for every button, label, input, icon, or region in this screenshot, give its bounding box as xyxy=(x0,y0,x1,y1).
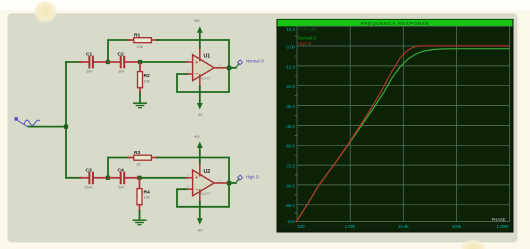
svg-text:10nF: 10nF xyxy=(84,185,93,189)
svg-text:C3: C3 xyxy=(86,167,93,173)
wire pin2 stub xyxy=(186,73,193,75)
svg-text:+: + xyxy=(195,175,198,181)
svg-text:C1: C1 xyxy=(86,52,93,58)
power +8V (U2) xyxy=(193,135,202,176)
op-amp U2 xyxy=(188,169,222,196)
svg-text:C4: C4 xyxy=(118,167,125,173)
wire trunk to C3 xyxy=(66,177,81,179)
curve Normal O (green) xyxy=(296,49,509,222)
capacitor C1 xyxy=(80,52,107,74)
ground (R4) xyxy=(133,220,145,225)
svg-text:0.00: 0.00 xyxy=(286,44,295,49)
graph window frame xyxy=(277,19,513,232)
svg-text:-72.0: -72.0 xyxy=(285,164,296,169)
svg-text:-24.0: -24.0 xyxy=(285,84,296,89)
svg-text:-8V: -8V xyxy=(197,113,203,117)
svg-text:1.00M: 1.00M xyxy=(497,224,509,229)
decorative blob top-left xyxy=(34,0,58,23)
resistor R1 xyxy=(129,32,158,48)
svg-text:1nF: 1nF xyxy=(118,185,125,189)
svg-text:12.0: 12.0 xyxy=(286,27,295,32)
x axis labels xyxy=(297,224,509,229)
svg-text:-8V: -8V xyxy=(197,229,203,233)
resistor R4 xyxy=(137,179,150,220)
svg-text:100: 100 xyxy=(297,224,305,229)
wire R1 to output column xyxy=(157,40,229,68)
y axis labels xyxy=(285,27,296,224)
capacitor C4 xyxy=(109,167,139,189)
svg-text:1.00k: 1.00k xyxy=(345,224,356,229)
svg-text:1nF: 1nF xyxy=(86,70,93,74)
svg-text:1k: 1k xyxy=(137,162,141,166)
ground (R2) xyxy=(134,103,146,108)
wire feedback loop U2 xyxy=(177,183,229,207)
svg-text:−: − xyxy=(196,187,199,193)
svg-text:PHASE: PHASE xyxy=(492,217,506,222)
svg-text:C2: C2 xyxy=(118,52,125,58)
resistor R3 xyxy=(129,150,158,166)
svg-text:U2: U2 xyxy=(204,169,211,175)
graph title bar xyxy=(278,20,513,27)
svg-text:R2: R2 xyxy=(144,73,151,79)
node B (C2-R2 junction) xyxy=(138,60,142,64)
svg-text:-96.0: -96.0 xyxy=(285,203,296,208)
node A (C1-C2 junction) xyxy=(106,60,110,64)
svg-text:High O: High O xyxy=(298,41,312,46)
decorative blob bottom xyxy=(460,239,486,249)
svg-text:10k: 10k xyxy=(144,79,150,83)
svg-text:+8V: +8V xyxy=(193,135,200,139)
power +8V (U1) xyxy=(193,19,202,60)
wire node B to op-amp pin3 xyxy=(141,61,187,63)
node output U1 xyxy=(227,66,231,70)
op-amp U1 xyxy=(188,54,222,81)
capacitor C2 xyxy=(109,52,139,74)
svg-text:100k: 100k xyxy=(452,224,462,229)
svg-text:GAIN (dB): GAIN (dB) xyxy=(298,27,318,32)
svg-text:Normal O: Normal O xyxy=(246,59,265,64)
node output U2 xyxy=(227,181,231,185)
svg-text:R1: R1 xyxy=(134,32,141,38)
svg-text:TL072: TL072 xyxy=(200,192,210,196)
svg-text:10k: 10k xyxy=(137,45,143,49)
y axis tick marks xyxy=(295,36,297,213)
svg-text:-84.0: -84.0 xyxy=(285,183,296,188)
power -8V (U2) xyxy=(197,190,203,232)
svg-text:-60.0: -60.0 xyxy=(285,144,296,149)
svg-text:Normal O: Normal O xyxy=(298,35,317,40)
wire node B2 to op-amp pin3 xyxy=(141,177,187,179)
terminal Normal O xyxy=(229,59,265,68)
wire R3 to output column xyxy=(157,158,229,184)
svg-text:−: − xyxy=(196,72,199,78)
svg-text:R3: R3 xyxy=(134,150,141,156)
wire node A up to R1 row xyxy=(108,40,130,62)
wire feedback loop U1 (output to inverting input) xyxy=(177,68,229,92)
wire pin2 stub U2 xyxy=(186,188,193,190)
node input junction xyxy=(64,125,68,129)
wire input to trunk xyxy=(29,126,67,128)
svg-text:1nF: 1nF xyxy=(118,70,125,74)
svg-text:-48.0: -48.0 xyxy=(285,124,296,129)
capacitor C3 xyxy=(80,167,107,189)
svg-text:TL072: TL072 xyxy=(200,77,210,81)
svg-text:-36.0: -36.0 xyxy=(285,104,296,109)
svg-text:+: + xyxy=(195,60,198,66)
resistor R2 xyxy=(138,63,151,103)
wire node A2 up to R3 row xyxy=(108,158,130,178)
wire output stub U2 xyxy=(214,182,228,184)
wire trunk to C1 xyxy=(66,61,81,63)
curve High O (red) xyxy=(296,46,509,222)
wire input trunk vertical xyxy=(65,62,67,178)
wire output stub U1 xyxy=(214,67,228,69)
svg-text:10.0k: 10.0k xyxy=(398,224,409,229)
svg-text:U1: U1 xyxy=(204,54,211,60)
input generator IN xyxy=(15,117,40,127)
svg-text:-12.0: -12.0 xyxy=(285,64,296,69)
terminal High O xyxy=(229,174,260,183)
node B2 (C4-R4 junction) xyxy=(137,176,141,180)
svg-text:+8V: +8V xyxy=(193,19,200,23)
power -8V (U1) xyxy=(197,75,203,117)
svg-text:10k: 10k xyxy=(144,195,150,199)
svg-text:High O: High O xyxy=(246,174,260,179)
node A2 (C3-C4 junction) xyxy=(106,176,110,180)
svg-text:-104: -104 xyxy=(286,219,295,224)
